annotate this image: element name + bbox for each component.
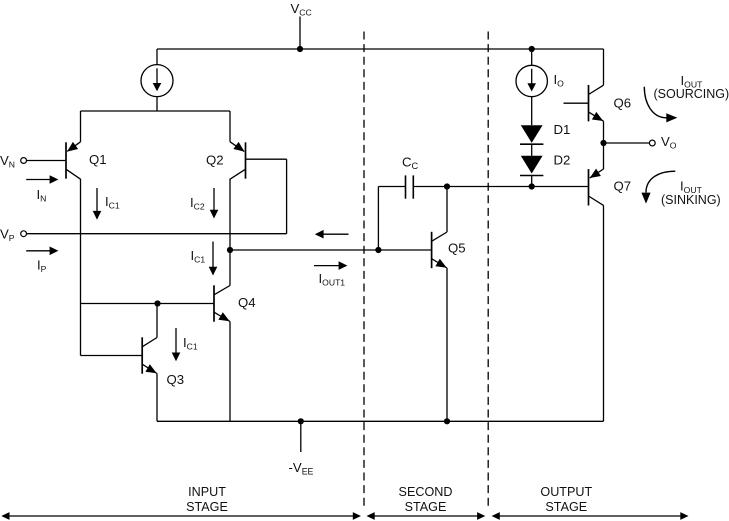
second stage span arrow: [373, 515, 478, 517]
arrow pointing left above IOUT1 line: [321, 233, 349, 235]
junction: Q5 emitter on rail: [444, 418, 450, 424]
terminal VO: [649, 140, 655, 146]
Q6 emitter diagonal with NPN arrow: [589, 112, 604, 121]
Q4 collector lead: [229, 250, 231, 286]
current source IO: [516, 65, 547, 96]
stage separator dashed line 2: [487, 32, 489, 511]
svg-text:Q2: Q2: [206, 153, 224, 168]
diode D2: [521, 156, 543, 174]
wire: VCC top rail: [157, 48, 604, 50]
stage separator dashed line 1: [363, 32, 365, 511]
Q2 emitter lead: [229, 111, 231, 142]
svg-text:INPUT: INPUT: [188, 485, 226, 499]
junction: Q3 collector on Q4 base line: [154, 300, 160, 306]
Q7 emitter lead from VO: [603, 143, 605, 169]
terminal VP: [21, 231, 27, 237]
Q5 collector lead: [446, 187, 448, 233]
terminal VN: [21, 158, 27, 164]
Q1 base wire from VN: [27, 160, 66, 162]
Q1 emitter diagonal with PNP arrow: [67, 142, 80, 152]
junction: VCC stub on top rail: [297, 46, 303, 52]
transistor Q2 bar: [245, 142, 247, 178]
Q5 emitter lead: [446, 268, 448, 421]
Q7 collector lead to rail: [603, 205, 605, 421]
transistor Q5 bar: [431, 232, 433, 268]
wire: VCC stub: [299, 17, 301, 50]
Q7 emitter diagonal with PNP arrow: [590, 169, 604, 178]
Q6 emitter lead: [603, 121, 605, 143]
arrow IC2 under Q2: [213, 188, 215, 210]
wire: left bus corner to Q3 base: [81, 355, 143, 357]
Q2 base tie wire: [246, 158, 287, 160]
Q3 collector lead up to Q4 base: [156, 304, 158, 338]
Q3 emitter diagonal with NPN arrow: [142, 364, 157, 373]
svg-text:STAGE: STAGE: [405, 500, 447, 514]
wire: rail to current source I1: [156, 49, 158, 65]
Q7 collector diagonal: [589, 196, 604, 205]
current source I1 (input stage tail): [141, 65, 173, 97]
wire: VEE bottom rail: [157, 420, 604, 422]
svg-text:OUTPUT: OUTPUT: [540, 485, 592, 499]
arrow IP: [26, 250, 50, 252]
wire: Q1 collector bus down left side: [80, 179, 82, 356]
junction: VEE stub: [298, 418, 304, 424]
capacitor CC: [378, 186, 405, 188]
svg-text:Q3: Q3: [167, 372, 185, 387]
Q6 collector lead to rail: [603, 49, 605, 85]
wire: current source I1 to emitter bus: [156, 97, 158, 111]
junction: VO node: [600, 140, 606, 146]
Q1 emitter lead: [80, 111, 82, 142]
wire: IO source to D1: [531, 97, 533, 126]
svg-text:Q1: Q1: [89, 152, 107, 167]
wire: CC right to Q7 base: [413, 186, 588, 188]
wire: VP line to Q2 base loop: [27, 233, 287, 235]
input stage span arrow: [8, 515, 354, 517]
svg-text:(SOURCING): (SOURCING): [654, 87, 729, 101]
arrow IC1 at Q3: [175, 328, 177, 353]
svg-text:D2: D2: [554, 153, 571, 168]
Q5 collector diagonal: [432, 232, 447, 241]
curved arrow IOUT sourcing: [644, 87, 666, 118]
wire: D1 to D2: [531, 144, 533, 156]
Q2 collector lead: [229, 179, 231, 250]
transistor Q6 bar: [588, 85, 590, 121]
wire: CC left drop: [377, 187, 379, 251]
svg-text:Q4: Q4: [238, 295, 256, 310]
junction: diode stack on Q7 base line: [529, 183, 535, 189]
wire: Q1/Q2 emitter bus: [81, 110, 231, 112]
wire: rail to IO source: [531, 49, 533, 65]
arrow IOUT1 pointing right: [314, 265, 340, 267]
transistor Q1 bar: [65, 142, 67, 178]
junction: CC to Q5 base node: [375, 247, 381, 253]
curved arrow IOUT sinking: [646, 171, 675, 192]
svg-text:STAGE: STAGE: [545, 500, 587, 514]
Q6 collector diagonal: [589, 85, 604, 94]
wire: VO node to terminal: [604, 142, 650, 144]
arrow IC1 between node and Q4: [212, 242, 214, 268]
Q6 base stub: [564, 102, 589, 104]
Q5 emitter diagonal with NPN arrow: [432, 259, 447, 268]
Q4 base wire: [81, 303, 215, 305]
Q1 collector diagonal: [66, 169, 81, 179]
transistor Q4 bar: [213, 285, 215, 321]
Q4 emitter lead: [229, 322, 231, 422]
svg-text:D1: D1: [554, 122, 571, 137]
wire: D2 to base line: [531, 176, 533, 187]
transistor Q3 bar: [141, 337, 143, 373]
junction: Q5 collector node: [444, 183, 450, 189]
arrow IC1 under Q1: [96, 188, 98, 212]
svg-text:Q5: Q5: [448, 241, 466, 256]
svg-text:Q6: Q6: [614, 96, 632, 111]
wire: node to Q5 base (IOUT1 line): [230, 249, 432, 251]
svg-text:SECOND: SECOND: [399, 485, 453, 499]
Q2 collector diagonal: [230, 169, 246, 179]
Q2 emitter diagonal with PNP arrow: [230, 142, 244, 152]
Q4 emitter diagonal with NPN arrow: [214, 312, 230, 321]
arrow IN: [26, 179, 50, 181]
diode D1: [521, 125, 543, 143]
output stage span arrow: [498, 515, 681, 517]
svg-text:STAGE: STAGE: [186, 500, 228, 514]
Q3 emitter lead: [156, 374, 158, 422]
wire: VEE stub: [300, 421, 302, 452]
svg-text:Q7: Q7: [614, 179, 632, 194]
Q3 collector diagonal: [142, 338, 157, 347]
Q4 collector diagonal: [214, 286, 230, 295]
transistor Q7 bar: [588, 169, 590, 205]
junction: IO current source on rail: [529, 46, 535, 52]
svg-text:(SINKING): (SINKING): [661, 193, 721, 207]
junction: Q2 collector / second-stage line: [227, 247, 233, 253]
